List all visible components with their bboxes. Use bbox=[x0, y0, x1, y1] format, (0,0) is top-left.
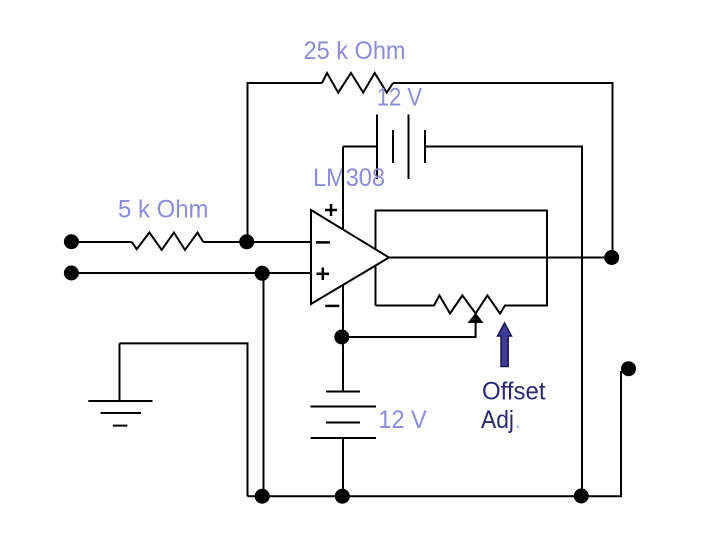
svg-text:Offset: Offset bbox=[482, 377, 546, 405]
offset adj pointer arrow bbox=[498, 323, 512, 367]
wire battery B1 left lead bbox=[343, 146, 377, 148]
op-amp V- minus symbol bbox=[325, 305, 339, 308]
node V- junction dot bbox=[334, 330, 349, 345]
node input 2 terminal dot bbox=[64, 266, 79, 281]
wire battery B2 bottom lead bbox=[342, 438, 344, 496]
svg-text:LM308: LM308 bbox=[313, 164, 385, 192]
resistor R2 5 k Ohm zigzag bbox=[132, 233, 204, 250]
node OUT junction dot bbox=[604, 250, 619, 265]
wire input 1 left segment bbox=[71, 241, 132, 243]
battery B2 12 V plates bbox=[311, 392, 377, 439]
wire output to node OUT bbox=[389, 257, 612, 259]
node output terminal dot bbox=[621, 361, 636, 376]
node bottom-middle junction dot bbox=[335, 489, 350, 504]
ground symbol bbox=[88, 343, 152, 425]
op-amp non-inverting input plus symbol bbox=[317, 268, 330, 281]
op-amp U1 LM308 triangle bbox=[311, 210, 389, 304]
node B junction dot bbox=[255, 266, 270, 281]
wire op-amp V+ supply drop overlay over label bbox=[342, 147, 344, 230]
svg-text:Adj: Adj bbox=[481, 406, 514, 434]
node A junction dot (feedback tap) bbox=[239, 234, 254, 249]
wire op-amp V- to battery B2 bbox=[342, 337, 344, 392]
wire offset wiper horizontal bbox=[343, 322, 476, 337]
svg-text:.: . bbox=[515, 406, 522, 434]
wire ground horizontal bbox=[120, 343, 248, 496]
wire op-amp V+ supply drop bbox=[342, 147, 344, 338]
potentiometer wiper arrow bbox=[469, 314, 483, 323]
node bottom-right junction dot bbox=[574, 489, 589, 504]
wire top to right corner bbox=[393, 83, 613, 258]
op-amp V+ plus symbol bbox=[325, 204, 337, 216]
wire from node B down to bottom rail bbox=[263, 273, 265, 496]
node input 1 terminal dot bbox=[64, 234, 79, 249]
wire input 1 to op-amp inverting input bbox=[203, 241, 311, 243]
wire battery B1 right lead to right drop bbox=[425, 147, 582, 497]
resistor R1 25 k Ohm zigzag bbox=[322, 73, 393, 93]
op-amp inverting input minus symbol bbox=[316, 241, 330, 244]
svg-text:12 V: 12 V bbox=[378, 406, 427, 434]
svg-text:25 k Ohm: 25 k Ohm bbox=[304, 37, 406, 65]
node bottom-left junction dot bbox=[255, 489, 270, 504]
wire bottom rail bbox=[248, 371, 622, 496]
svg-text:12 V: 12 V bbox=[377, 84, 423, 112]
wire feedback top loop left drop bbox=[248, 83, 323, 242]
svg-text:5 k Ohm: 5 k Ohm bbox=[118, 195, 209, 223]
wire input 2 to op-amp non-inverting input bbox=[71, 272, 311, 274]
battery B1 12 V plates bbox=[377, 115, 425, 180]
LM308 package box with potentiometer zigzag in bottom edge bbox=[376, 211, 548, 314]
